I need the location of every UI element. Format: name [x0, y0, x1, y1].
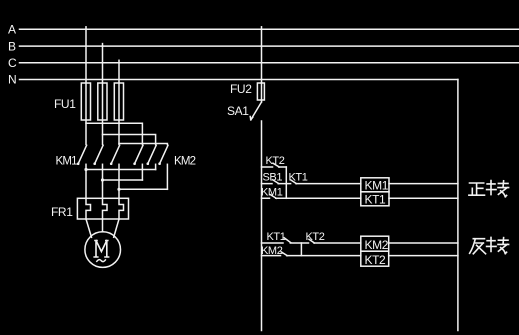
wire feed KM2 pole 3 — [119, 144, 167, 145]
wire KM1 pole3 out — [118, 164, 120, 198]
wire FR1 to motor right — [114, 219, 119, 237]
node tap A to FU1 — [85, 27, 87, 30]
wire rung2 join vertical — [300, 243, 302, 256]
label reverse (hanzi 反转) — [470, 237, 509, 253]
wire KM2 pole1 out — [141, 164, 143, 180]
coil KT1 — [361, 192, 389, 207]
wire KM2 pole2 out — [155, 164, 157, 169]
contact KM2 aux (rung 2 lower branch) — [261, 245, 361, 257]
wire phase C drop — [118, 63, 120, 145]
wire FR1 to motor — [86, 219, 92, 237]
wire KM1 pole2 out — [102, 164, 104, 198]
wire KT1 coil to right rail — [389, 197, 458, 199]
svg-text:KM1: KM1 — [261, 187, 283, 199]
switch SA1 — [227, 102, 262, 120]
wire KM1 pole1 out — [85, 164, 87, 198]
svg-text:N: N — [8, 73, 17, 87]
svg-text:FU1: FU1 — [54, 97, 76, 111]
motor M — [85, 232, 121, 268]
svg-text:SA1: SA1 — [227, 104, 249, 118]
contact KM1 aux (rung 1 lower branch) — [261, 187, 361, 199]
fuse FU1 — [54, 83, 124, 120]
svg-text:KT1: KT1 — [267, 231, 286, 243]
wire branch join vertical — [285, 167, 287, 198]
svg-text:C: C — [8, 56, 17, 70]
wire crossover B — [103, 179, 143, 181]
coil KM2 — [361, 236, 389, 252]
wire phase B drop — [102, 46, 104, 144]
node tap C to FU1 — [118, 60, 120, 63]
wire KT2 coil to right rail — [389, 255, 458, 257]
node tap A to control — [261, 27, 263, 30]
phase line C — [8, 56, 519, 70]
svg-text:B: B — [8, 39, 16, 53]
timer contact KT2 (rung 2) — [306, 231, 361, 243]
label forward (hanzi 正转) — [469, 181, 509, 197]
svg-text:KT1: KT1 — [289, 171, 308, 183]
wire feed KM2 pole 1 — [86, 123, 142, 144]
junction W — [117, 188, 120, 191]
timer contact KT1 (rung 2) — [262, 231, 309, 243]
wire KM1 coil to right rail — [389, 183, 458, 185]
wire control rail right — [457, 80, 459, 331]
svg-text:A: A — [8, 23, 16, 37]
node tap B to FU1 — [102, 44, 104, 47]
contactor KM2 main contacts — [133, 145, 195, 167]
svg-text:KM2: KM2 — [261, 245, 283, 257]
junction V — [101, 178, 104, 181]
timer contact KT1 (rung 1) — [289, 171, 361, 183]
svg-text:FR1: FR1 — [51, 205, 73, 219]
wire control rail left — [261, 121, 263, 331]
svg-text:KT2: KT2 — [306, 231, 325, 243]
svg-text:FU2: FU2 — [230, 82, 252, 96]
svg-text:KM1: KM1 — [365, 179, 389, 193]
contactor KM1 main contacts — [56, 145, 120, 167]
wire FR1 to motor mid — [102, 219, 104, 232]
svg-text:SB1: SB1 — [263, 171, 283, 183]
fuse FU2 — [230, 82, 264, 100]
phase line A — [8, 23, 519, 37]
button SB1 (rung 1 main line) — [262, 171, 291, 183]
svg-text:KM1: KM1 — [56, 156, 78, 168]
wire feed KM2 pole 2 — [103, 135, 156, 145]
svg-text:KT2: KT2 — [365, 253, 387, 267]
wire crossover A — [86, 169, 156, 171]
wire KM2 pole3 out — [166, 164, 168, 189]
svg-text:KT2: KT2 — [266, 155, 285, 167]
svg-text:KT1: KT1 — [365, 193, 387, 207]
phase line B — [8, 39, 519, 53]
coil KT2 — [361, 251, 389, 267]
svg-text:KM2: KM2 — [365, 238, 389, 252]
wire KM2 coil to right rail — [389, 242, 458, 244]
wire control drop — [261, 29, 263, 83]
wire phase A drop — [85, 29, 87, 144]
thermal relay FR1 — [51, 198, 129, 219]
svg-text:KM2: KM2 — [174, 156, 196, 168]
neutral line N — [8, 73, 458, 87]
timer contact KT2 (rung 1 branch) — [262, 155, 287, 167]
wire FU2 to SA1 — [261, 100, 263, 102]
coil KM1 — [361, 178, 389, 193]
junction U — [84, 168, 87, 171]
wire crossover C — [119, 188, 167, 190]
